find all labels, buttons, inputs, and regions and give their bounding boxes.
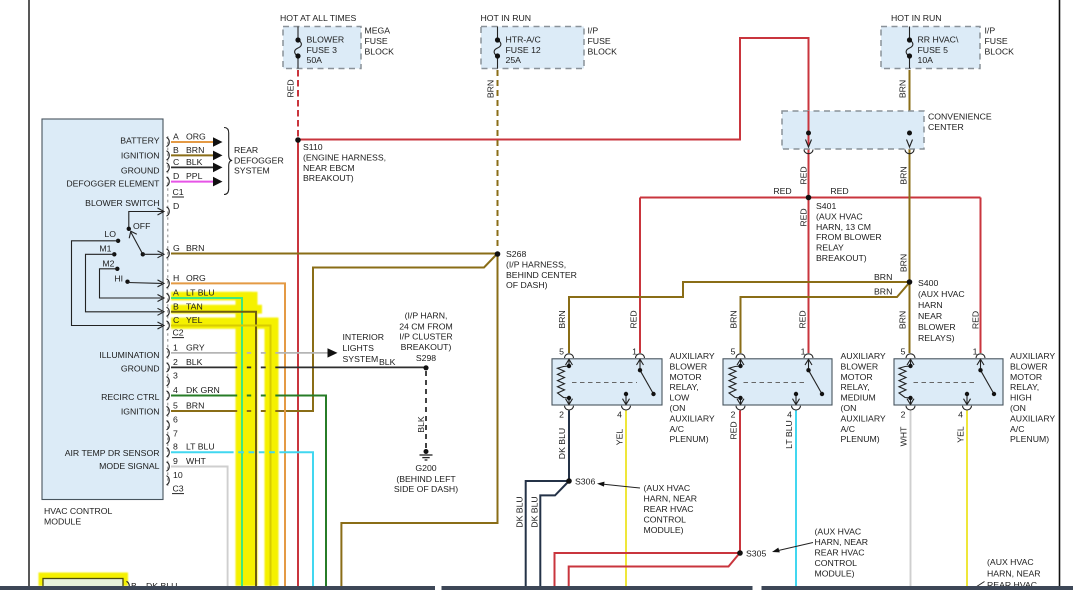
rear defogger system brace (224, 128, 232, 195)
svg-text:3: 3 (173, 371, 178, 381)
relay K-MED actuation dashed line (744, 382, 807, 384)
svg-text:5: 5 (173, 401, 178, 411)
splice S400 junction dot (907, 279, 913, 285)
relay K-HIGH pin 4 connector arc (963, 406, 972, 410)
svg-text:HI: HI (114, 274, 123, 284)
svg-text:MODULE: MODULE (44, 517, 81, 527)
relay K-LOW pin 2 connector arc (565, 406, 574, 410)
svg-text:A/C: A/C (1010, 424, 1024, 434)
svg-text:ILLUMINATION: ILLUMINATION (99, 350, 159, 360)
pin bracket 2 (167, 363, 170, 372)
svg-text:C1: C1 (173, 187, 184, 197)
convenience center BRN connector arc (905, 150, 914, 154)
splice S401 junction dot (806, 195, 812, 201)
svg-text:(AUX HVAC: (AUX HVAC (815, 527, 862, 537)
pin bracket 4 (167, 391, 170, 400)
svg-text:AUXILIARY: AUXILIARY (670, 351, 715, 361)
svg-text:4: 4 (958, 410, 963, 420)
svg-text:2: 2 (731, 410, 736, 420)
svg-text:(ENGINE HARNESS,: (ENGINE HARNESS, (303, 152, 386, 162)
wire YEL relay LOW pin 4 to page bottom (625, 411, 627, 587)
svg-text:BLOWER: BLOWER (1010, 361, 1048, 371)
svg-text:BLOWER: BLOWER (670, 361, 708, 371)
svg-text:S268: S268 (506, 249, 526, 259)
wire LT BLU pin 8 down to page bottom (171, 452, 313, 586)
svg-text:C2: C2 (173, 328, 184, 338)
pin bracket 8 (167, 448, 170, 457)
svg-text:SIDE OF DASH): SIDE OF DASH) (394, 484, 458, 494)
connector dashed line along HVAC module pins (167, 136, 169, 486)
svg-text:LT BLU: LT BLU (186, 442, 215, 452)
svg-text:RED: RED (798, 310, 808, 328)
svg-text:S110: S110 (303, 142, 323, 152)
svg-text:BLOCK: BLOCK (985, 47, 1015, 57)
svg-text:RED: RED (729, 421, 739, 439)
svg-text:AUXILIARY: AUXILIARY (1010, 413, 1055, 423)
svg-text:BRN: BRN (557, 310, 567, 328)
svg-text:CONVENIENCE: CONVENIENCE (928, 112, 992, 122)
svg-text:BRN: BRN (186, 401, 204, 411)
wire BLK pin 2 to S298 (171, 366, 425, 368)
svg-text:(AUX HVAC: (AUX HVAC (816, 211, 863, 221)
svg-text:(I/P HARN,: (I/P HARN, (405, 311, 448, 321)
svg-text:RECIRC CTRL: RECIRC CTRL (101, 392, 160, 402)
convenience center box (782, 111, 924, 149)
pin bracket C (C1) (167, 163, 170, 172)
svg-text:H: H (173, 273, 179, 283)
svg-text:PLENUM): PLENUM) (670, 434, 709, 444)
svg-text:AIR TEMP DR SENSOR: AIR TEMP DR SENSOR (65, 448, 160, 458)
relay K-HIGH auxiliary blower motor relay high box (894, 359, 1003, 405)
svg-text:LT BLU: LT BLU (784, 420, 794, 449)
svg-text:2: 2 (173, 357, 178, 367)
svg-text:AUXILIARY: AUXILIARY (841, 351, 886, 361)
svg-text:BATTERY: BATTERY (120, 136, 159, 146)
page border left (28, 0, 30, 586)
svg-text:BRN: BRN (186, 243, 204, 253)
wire BRN S400 down to relay HIGH pin 5 (909, 282, 911, 353)
svg-text:M2: M2 (102, 259, 114, 269)
svg-text:BREAKOUT): BREAKOUT) (816, 253, 867, 263)
svg-text:FUSE: FUSE (588, 36, 611, 46)
blower switch feed line to pin D (129, 212, 163, 229)
svg-text:BLOWER SWITCH: BLOWER SWITCH (85, 198, 159, 208)
pin bracket 10 (167, 476, 170, 485)
svg-text:RED: RED (799, 166, 809, 184)
svg-text:MOTOR: MOTOR (841, 372, 873, 382)
svg-text:MEDIUM: MEDIUM (841, 393, 876, 403)
relay K-MED pin 2 connector arc (736, 406, 745, 410)
svg-text:AUXILIARY: AUXILIARY (841, 413, 886, 423)
relay K-LOW switch contact (623, 359, 654, 405)
wire BRN through convenience center down to S400 (909, 111, 911, 282)
svg-text:(ON: (ON (841, 403, 857, 413)
ground G200 symbol (424, 449, 429, 454)
S306 annotation pointer arrow (599, 484, 640, 488)
svg-text:BRN: BRN (874, 287, 892, 297)
svg-text:FROM BLOWER: FROM BLOWER (816, 232, 882, 242)
wire RED relay MEDIUM pin 2 to S305 (739, 411, 741, 554)
blower switch wiper to pin G (143, 253, 162, 255)
svg-text:9: 9 (173, 456, 178, 466)
svg-text:OFF: OFF (133, 221, 150, 231)
svg-text:1: 1 (173, 342, 178, 352)
wire TAN pin B highlighted down to page bottom (171, 312, 256, 586)
bottom viewer bar (0, 586, 435, 590)
svg-text:BLOCK: BLOCK (365, 47, 395, 57)
svg-text:CONTROL: CONTROL (644, 515, 687, 525)
relay K-HIGH pin 1 connector arc (976, 354, 985, 358)
pin bracket 6 (167, 421, 170, 430)
rear defogger arrow pin B (213, 151, 223, 161)
svg-text:LO: LO (104, 229, 116, 239)
svg-text:RED: RED (629, 310, 639, 328)
svg-text:5: 5 (901, 347, 906, 357)
svg-text:6: 6 (173, 415, 178, 425)
svg-text:IGNITION: IGNITION (121, 406, 160, 416)
svg-text:RR HVAC\: RR HVAC\ (918, 35, 959, 45)
blower switch wiper arm (131, 232, 143, 255)
pin bracket G (167, 249, 170, 258)
svg-text:DK BLU: DK BLU (557, 428, 567, 459)
svg-text:5: 5 (559, 347, 564, 357)
relay K-HIGH pin 2 connector arc (906, 406, 915, 410)
wire RED S110 vertical down to page bottom (297, 139, 299, 586)
svg-text:HARN: HARN (918, 300, 943, 310)
svg-text:RELAY,: RELAY, (670, 382, 699, 392)
svg-text:A: A (173, 132, 179, 142)
svg-text:BRN: BRN (899, 166, 909, 184)
wire RED S305 branch 1 to page bottom (555, 553, 741, 586)
svg-text:1: 1 (801, 347, 806, 357)
svg-text:8: 8 (173, 442, 178, 452)
wire BLK pin C to rear defogger arrow (171, 166, 213, 168)
svg-text:1: 1 (973, 347, 978, 357)
svg-text:D: D (173, 171, 179, 181)
svg-text:D: D (173, 201, 179, 211)
svg-text:YEL: YEL (615, 429, 625, 446)
svg-text:HARN, 13 CM: HARN, 13 CM (816, 222, 871, 232)
fuse F5 RR HVAC 10A element (906, 27, 913, 69)
svg-text:NEAR: NEAR (918, 311, 942, 321)
wire RED S401 to relay MEDIUM pin 1 (808, 198, 810, 354)
fuse F12 HTR-A/C 25A element (494, 27, 501, 69)
splice S268 junction dot (495, 251, 501, 257)
svg-text:FUSE 3: FUSE 3 (307, 45, 338, 55)
pin bracket 1 (167, 348, 170, 357)
svg-text:HOT IN RUN: HOT IN RUN (891, 13, 942, 23)
svg-text:CONTROL: CONTROL (815, 558, 858, 568)
wire BRN dashed from fuse HTR-A/C to S268 (497, 70, 499, 250)
svg-text:BRN: BRN (874, 272, 892, 282)
wire BRN pin 5 up to S268 (171, 255, 496, 411)
svg-text:DK BLU: DK BLU (515, 496, 525, 527)
svg-text:RELAYS): RELAYS) (918, 333, 955, 343)
arrow to interior lights system (328, 348, 338, 357)
wire RED through convenience center down to S401 (808, 111, 810, 198)
svg-text:INTERIOR: INTERIOR (343, 332, 385, 342)
pin bracket 5 (167, 406, 170, 415)
svg-text:10A: 10A (918, 55, 934, 65)
svg-text:AUXILIARY: AUXILIARY (670, 413, 715, 423)
pin bracket A (C1) (167, 137, 170, 146)
svg-text:LT BLU: LT BLU (186, 288, 215, 298)
rear defogger arrow pin A (213, 137, 223, 147)
svg-text:BRN: BRN (486, 80, 496, 98)
mega fuse block box (283, 27, 361, 69)
svg-text:PPL: PPL (186, 171, 203, 181)
svg-text:RED: RED (971, 311, 981, 329)
wire RED S401 horizontal bus (640, 197, 981, 199)
svg-text:(BEHIND LEFT: (BEHIND LEFT (396, 474, 456, 484)
relay K-MED coil (729, 359, 744, 405)
svg-text:FUSE: FUSE (365, 36, 388, 46)
blower switch M1 position dot and wire to pin B (112, 252, 116, 256)
svg-text:REAR HVAC: REAR HVAC (815, 548, 865, 558)
svg-text:I/P: I/P (985, 26, 996, 36)
wire RED S401 to relay LOW pin 1 (639, 198, 641, 354)
svg-text:(AUX HVAC: (AUX HVAC (987, 557, 1034, 567)
svg-text:ORG: ORG (186, 132, 206, 142)
svg-text:DEFOGGER ELEMENT: DEFOGGER ELEMENT (66, 179, 160, 189)
relay K-MED pin 1 connector arc (804, 354, 813, 358)
svg-text:24 CM FROM: 24 CM FROM (399, 321, 453, 331)
relay K-LOW pin 4 connector arc (622, 406, 631, 410)
relay K-MED auxiliary blower motor relay medium box (723, 359, 832, 405)
pin bracket A (C2) (167, 293, 170, 302)
highlighter band vertical over LT BLU and TAN wires (236, 292, 258, 586)
svg-text:RED: RED (286, 79, 296, 97)
wire BLK dashed S298 to G200 (425, 371, 427, 449)
splice S305 junction dot (737, 550, 743, 556)
svg-text:HVAC CONTROL: HVAC CONTROL (44, 506, 113, 516)
svg-text:HARN, NEAR: HARN, NEAR (815, 537, 869, 547)
svg-text:BREAKOUT): BREAKOUT) (401, 342, 452, 352)
wire WHT pin 9 down to page bottom (171, 467, 228, 587)
svg-text:MODULE): MODULE) (815, 569, 855, 579)
svg-text:BRN: BRN (899, 254, 909, 272)
fuse F3 BLOWER 50A element (295, 27, 302, 69)
svg-text:1: 1 (632, 347, 637, 357)
svg-text:DK GRN: DK GRN (186, 385, 220, 395)
svg-text:REAR: REAR (234, 145, 258, 155)
highlighter band vertical over YEL wire (265, 318, 279, 586)
svg-text:(AUX HVAC: (AUX HVAC (918, 289, 965, 299)
svg-text:CENTER: CENTER (928, 122, 964, 132)
wire ORG pin H down to page bottom (171, 283, 285, 586)
svg-text:2: 2 (901, 410, 906, 420)
svg-text:PLENUM): PLENUM) (1010, 434, 1049, 444)
pin bracket D (C2 blower switch) (167, 207, 170, 216)
annotation pointer at bottom right YEL wire (972, 582, 985, 590)
rear defogger arrow pin C (213, 163, 223, 173)
pin bracket D (C1) (167, 177, 170, 186)
svg-text:FUSE 5: FUSE 5 (918, 45, 949, 55)
relay K-LOW pin 5 connector arc (565, 354, 574, 358)
svg-text:S306: S306 (575, 477, 595, 487)
svg-text:B: B (173, 145, 179, 155)
svg-text:B: B (173, 301, 179, 311)
svg-text:(AUX HVAC: (AUX HVAC (644, 483, 691, 493)
pin bracket 7 (167, 434, 170, 443)
svg-text:PLENUM): PLENUM) (841, 434, 880, 444)
svg-text:BRN: BRN (186, 145, 204, 155)
svg-text:SYSTEM: SYSTEM (234, 166, 270, 176)
svg-text:RED: RED (773, 186, 791, 196)
svg-text:A/C: A/C (841, 424, 855, 434)
I/P fuse block box (RR HVAC) (881, 27, 980, 69)
highlighter band over wire A LT BLU row (171, 292, 252, 301)
svg-text:50A: 50A (307, 55, 323, 65)
svg-text:BLOWER: BLOWER (841, 361, 879, 371)
blower switch LO position dot and wire to pin C (116, 239, 120, 243)
svg-text:IGNITION: IGNITION (121, 150, 160, 160)
svg-text:ORG: ORG (186, 273, 206, 283)
svg-text:RELAY: RELAY (816, 243, 844, 253)
HVAC control module box (42, 119, 163, 500)
svg-text:BLK: BLK (186, 157, 203, 167)
svg-text:FUSE 12: FUSE 12 (506, 45, 541, 55)
svg-text:HOT AT ALL TIMES: HOT AT ALL TIMES (280, 13, 356, 23)
svg-text:I/P CLUSTER: I/P CLUSTER (399, 332, 452, 342)
svg-text:OF DASH): OF DASH) (506, 280, 548, 290)
svg-text:MODE SIGNAL: MODE SIGNAL (99, 461, 160, 471)
wire DK BLU S306 branch 2 to page bottom (540, 483, 567, 587)
svg-text:S400: S400 (918, 278, 938, 288)
svg-text:HARN, NEAR: HARN, NEAR (644, 494, 698, 504)
highlighter band over wire B TAN row (171, 305, 262, 314)
wire ORG pin A to rear defogger arrow (171, 141, 213, 143)
wire DK BLU S306 branch 1 to page bottom (526, 481, 569, 586)
svg-text:MOTOR: MOTOR (1010, 372, 1042, 382)
convenience center RED feed dot and arrow (808, 111, 810, 146)
relay K-LOW coil (558, 359, 573, 405)
pin bracket B (C2) (167, 307, 170, 316)
svg-text:(ON: (ON (670, 403, 686, 413)
wire DK BLU relay LOW pin 2 to S306 (568, 411, 570, 482)
svg-text:DEFOGGER: DEFOGGER (234, 155, 284, 165)
svg-text:M1: M1 (99, 243, 111, 253)
wire RED S401 to relay HIGH pin 1 (980, 198, 982, 354)
svg-text:BLK: BLK (186, 357, 203, 367)
svg-text:BLK: BLK (416, 416, 426, 433)
svg-text:BRN: BRN (898, 311, 908, 329)
relay K-MED pin 5 connector arc (736, 354, 745, 358)
svg-text:25A: 25A (506, 55, 522, 65)
wire DK GRN pin 4 down to page bottom (171, 396, 326, 587)
pin bracket C (C2) (167, 321, 170, 330)
wire BRN pin G to S268 (171, 253, 496, 255)
wire GRY pin 1 to interior lights system arrow (171, 352, 328, 354)
svg-text:BEHIND CENTER: BEHIND CENTER (506, 270, 577, 280)
highlighter band over bottom-left module box (39, 573, 129, 587)
relay K-HIGH pin 5 connector arc (906, 354, 915, 358)
svg-text:BLOWER: BLOWER (918, 322, 956, 332)
svg-text:REAR HVAC: REAR HVAC (644, 504, 694, 514)
wire RED S110 horizontal to convenience center riser (298, 38, 809, 140)
pin bracket B (C1) (167, 151, 170, 160)
rear defogger arrow pin D (213, 177, 223, 187)
wire RED dashed from fuse 3 BLOWER to S110 (297, 70, 299, 137)
svg-text:GROUND: GROUND (121, 364, 160, 374)
svg-text:YEL: YEL (186, 315, 203, 325)
svg-text:GRY: GRY (186, 342, 205, 352)
svg-text:MODULE): MODULE) (644, 525, 684, 535)
svg-text:BRN: BRN (898, 80, 908, 98)
svg-text:BLOWER: BLOWER (307, 35, 345, 45)
svg-text:7: 7 (173, 429, 178, 439)
page border right (1059, 0, 1061, 590)
svg-text:RELAY,: RELAY, (841, 382, 870, 392)
svg-text:FUSE: FUSE (985, 36, 1008, 46)
svg-text:SYSTEM: SYSTEM (343, 354, 379, 364)
relay K-LOW auxiliary blower motor relay low box (552, 359, 662, 405)
svg-text:BREAKOUT): BREAKOUT) (303, 173, 354, 183)
svg-text:10: 10 (173, 470, 183, 480)
pin bracket B (bottom-left module) (127, 581, 130, 590)
svg-text:NEAR EBCM: NEAR EBCM (303, 163, 355, 173)
wire BRN S268 branch down-left to page bottom (341, 255, 497, 586)
svg-text:G200: G200 (415, 463, 436, 473)
svg-text:TAN: TAN (186, 301, 203, 311)
wire YEL pin C highlighted down to page bottom (171, 326, 271, 587)
svg-text:C3: C3 (173, 484, 184, 494)
svg-text:DK BLU: DK BLU (530, 496, 540, 527)
svg-text:MOTOR: MOTOR (670, 372, 702, 382)
convenience center BRN feed dot and arrow (907, 131, 912, 136)
splice S298 junction dot (423, 365, 428, 370)
svg-text:BLOCK: BLOCK (588, 47, 618, 57)
svg-text:AUXILIARY: AUXILIARY (1010, 351, 1055, 361)
svg-text:WHT: WHT (186, 456, 206, 466)
svg-text:A: A (173, 288, 179, 298)
I/P fuse block box (HTR-A/C) (481, 27, 584, 69)
relay K-LOW actuation dashed line (572, 382, 637, 384)
svg-text:C: C (173, 315, 179, 325)
pin bracket 9 (167, 462, 170, 471)
wire BRN S400 to relay LOW pin 5 (569, 282, 910, 353)
relay K-HIGH actuation dashed line (914, 382, 978, 384)
svg-text:LOW: LOW (670, 393, 691, 403)
splice S306 junction dot (566, 478, 572, 484)
svg-text:S305: S305 (746, 549, 766, 559)
svg-text:GROUND: GROUND (121, 165, 160, 175)
svg-text:S298: S298 (416, 353, 436, 363)
svg-text:RED: RED (799, 208, 809, 226)
svg-text:4: 4 (173, 385, 178, 395)
highlighter band over wire C YEL row (171, 318, 278, 329)
S305 annotation pointer arrow (774, 543, 813, 552)
relay K-LOW pin 1 connector arc (636, 354, 645, 358)
svg-text:YEL: YEL (956, 426, 966, 443)
relay K-HIGH coil (899, 359, 914, 405)
svg-text:HOT IN RUN: HOT IN RUN (481, 13, 532, 23)
svg-text:2: 2 (559, 410, 564, 420)
wire LT BLU pin A highlighted down to page bottom (171, 298, 242, 586)
svg-text:WHT: WHT (899, 426, 909, 446)
bottom-left module box under highlighter (43, 579, 123, 590)
convenience center RED connector arc (804, 150, 813, 154)
svg-text:C: C (173, 157, 179, 167)
wire BRN fuse RR HVAC to convenience center (909, 70, 911, 111)
wire WHT relay HIGH pin 2 to page bottom (910, 411, 912, 587)
wire RED S305 branch 2 to page bottom (569, 555, 739, 587)
relay K-HIGH switch contact (964, 359, 995, 405)
blower switch HI position dot and wire to pin H (125, 280, 129, 284)
svg-text:HARN, NEAR: HARN, NEAR (987, 569, 1041, 579)
svg-text:(ON: (ON (1010, 403, 1026, 413)
svg-text:HTR-A/C: HTR-A/C (506, 35, 541, 45)
